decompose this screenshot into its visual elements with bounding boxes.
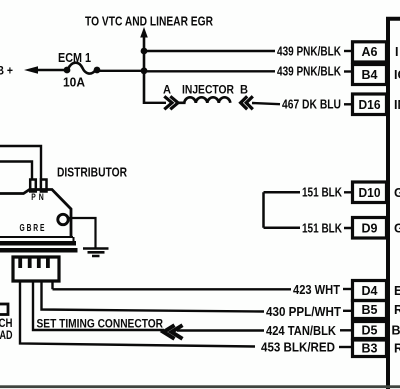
- svg-text:10A: 10A: [63, 76, 85, 90]
- svg-text:B5: B5: [362, 303, 378, 317]
- svg-text:N: N: [39, 192, 44, 202]
- svg-text:P: P: [31, 192, 36, 202]
- svg-text:DISTRIBUTOR: DISTRIBUTOR: [57, 165, 127, 180]
- svg-text:467 DK BLU: 467 DK BLU: [282, 98, 341, 112]
- svg-text:TO VTC AND LINEAR EGR: TO VTC AND LINEAR EGR: [85, 15, 213, 29]
- svg-text:GROUND: GROUND: [394, 186, 400, 200]
- svg-text:151 BLK: 151 BLK: [302, 221, 342, 235]
- svg-text:D4: D4: [362, 284, 378, 298]
- svg-text:REF: REF: [394, 303, 400, 317]
- svg-text:AD: AD: [0, 328, 13, 342]
- svg-text:G B R E: G B R E: [20, 223, 45, 234]
- svg-text:I: I: [395, 45, 398, 59]
- svg-text:B3: B3: [362, 342, 378, 356]
- svg-text:A: A: [163, 85, 171, 97]
- svg-text:424 TAN/BLK: 424 TAN/BLK: [266, 324, 336, 338]
- svg-text:423 WHT: 423 WHT: [293, 283, 340, 297]
- svg-text:B4: B4: [362, 68, 378, 82]
- svg-text:B: B: [240, 85, 248, 97]
- svg-text:REF: REF: [394, 342, 400, 356]
- svg-text:439 PNK/BLK: 439 PNK/BLK: [277, 45, 341, 59]
- svg-text:IGN: IGN: [394, 68, 400, 82]
- svg-text:D9: D9: [362, 221, 378, 235]
- svg-text:A6: A6: [362, 45, 378, 59]
- svg-text:D10: D10: [359, 186, 381, 200]
- svg-text:EST: EST: [394, 284, 400, 298]
- svg-text:INJECTOR: INJECTOR: [182, 85, 235, 97]
- svg-text:INJ: INJ: [394, 98, 400, 112]
- svg-text:D5: D5: [362, 323, 378, 337]
- svg-text:430 PPL/WHT: 430 PPL/WHT: [266, 305, 341, 319]
- svg-text:D16: D16: [359, 98, 381, 112]
- svg-text:GROUND: GROUND: [394, 221, 400, 235]
- svg-text:453 BLK/RED: 453 BLK/RED: [261, 341, 335, 355]
- svg-text:BYPASS: BYPASS: [392, 323, 400, 337]
- svg-text:439 PNK/BLK: 439 PNK/BLK: [277, 65, 341, 79]
- svg-text:B +: B +: [0, 66, 13, 78]
- svg-text:SET TIMING CONNECTOR: SET TIMING CONNECTOR: [37, 317, 164, 331]
- svg-text:151 BLK: 151 BLK: [302, 186, 342, 200]
